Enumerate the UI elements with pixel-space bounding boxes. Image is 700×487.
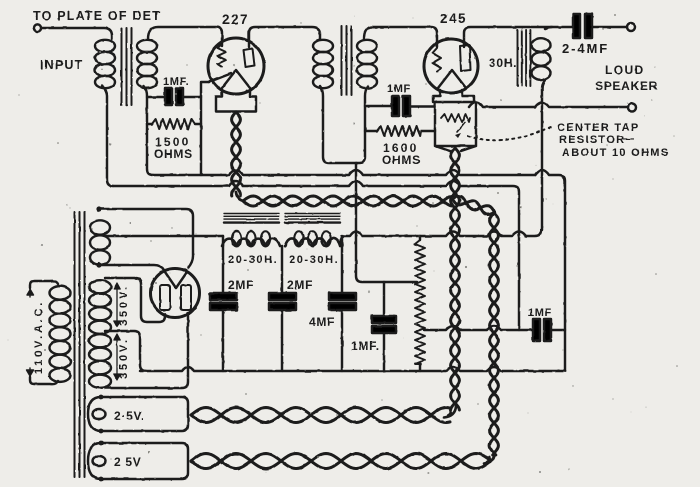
tube V2 filament xyxy=(438,70,466,88)
arrow 350V lower xyxy=(114,334,120,380)
capacitor C5 2MF bars xyxy=(269,293,296,310)
choke L3 30H core xyxy=(518,30,531,86)
node filament winding bottom dot xyxy=(96,262,101,267)
twisted pair 2.5V winding1 horizontal xyxy=(191,408,450,423)
label 2.5V winding 1 xyxy=(114,409,145,423)
label L2 20-30H. xyxy=(289,254,339,266)
wire C8 right lead xyxy=(551,329,565,331)
center-tap resistor box xyxy=(435,102,476,151)
svg-text:4MF: 4MF xyxy=(309,315,335,329)
svg-text:TO PLATE OF DET: TO PLATE OF DET xyxy=(33,9,161,23)
node 2.5V w2 dots xyxy=(99,441,104,482)
node filament winding top dot xyxy=(96,206,101,211)
twisted pair X junction diagonal xyxy=(452,196,495,215)
svg-text:20-30H.: 20-30H. xyxy=(289,254,339,266)
svg-text:1MF.: 1MF. xyxy=(351,339,380,353)
wire 110V bottom lead xyxy=(30,377,58,384)
svg-text:2-4MF: 2-4MF xyxy=(562,41,609,56)
capacitor C6 4MF bars xyxy=(329,293,356,310)
label R2 value 1600 OHMS xyxy=(382,141,421,167)
capacitor C2 1MF bars xyxy=(392,96,410,116)
label V1 227 xyxy=(222,12,249,27)
tube V1 227 envelope xyxy=(208,38,264,94)
wire V1 cathode to ground rail xyxy=(201,82,209,175)
tube V2 base xyxy=(433,90,474,102)
svg-text:RESISTOR: RESISTOR xyxy=(559,134,625,146)
transformer T3 2.5V winding 2 xyxy=(88,443,188,479)
svg-text:350V.: 350V. xyxy=(118,284,130,326)
transformer T1 primary winding xyxy=(95,40,115,88)
tube V1 base xyxy=(216,90,256,112)
wire bias tap line to right xyxy=(424,326,533,330)
capacitor C1 1MF bars xyxy=(165,88,183,105)
twisted pair second vertical run xyxy=(490,213,499,455)
label C2 1MF xyxy=(387,83,411,95)
arrow 350V upper xyxy=(114,283,120,327)
transformer T3 primary winding 110V xyxy=(50,286,71,382)
svg-text:110V.A.C.: 110V.A.C. xyxy=(33,300,45,374)
wire ground return rail xyxy=(140,367,565,371)
wire speaker return from box xyxy=(410,102,627,107)
wire HV center tap to ground line xyxy=(105,331,146,371)
label L3 30H. xyxy=(489,56,517,70)
wire V2 plate to choke and output cap xyxy=(464,27,627,47)
twisted pair 2.5V winding2 horizontal xyxy=(191,454,490,469)
wire T2 return stub to bias tap xyxy=(356,163,417,282)
label 350V upper xyxy=(118,284,130,326)
resistor R1 1500 ohms xyxy=(147,119,201,129)
capacitor C7 1MF stacked bars xyxy=(372,316,396,333)
svg-text:LOUD: LOUD xyxy=(605,63,645,77)
svg-text:350V.: 350V. xyxy=(118,337,130,379)
wire choke L3 bottom to B+ line xyxy=(541,90,543,230)
twisted heater pair V1 vertical xyxy=(232,112,241,196)
arrow 110V top xyxy=(27,289,34,297)
svg-text:227: 227 xyxy=(222,12,249,27)
svg-text:—: — xyxy=(623,133,635,145)
wire filament top lead xyxy=(99,209,193,268)
wire HV top to plate1 xyxy=(105,278,165,322)
transformer T2 primary winding xyxy=(313,40,333,88)
label center tap resistor note xyxy=(557,122,669,159)
svg-text:OHMS: OHMS xyxy=(382,153,421,167)
capacitor C3 2-4MF bars xyxy=(573,14,592,38)
capacitor C8 1MF bars xyxy=(533,319,551,341)
tube V3 plate 2 xyxy=(181,285,191,310)
resistor R2 1600 ohms xyxy=(365,126,435,136)
label INPUT xyxy=(40,58,84,72)
svg-text:2 5V: 2 5V xyxy=(114,455,142,469)
svg-text:1MF: 1MF xyxy=(528,307,552,319)
label C7 1MF. xyxy=(351,339,380,353)
tube V3 filament V xyxy=(165,272,187,288)
wire T1 secondary bottom to ground rail xyxy=(144,86,153,175)
capacitor C4 2MF bars xyxy=(210,293,237,310)
node speaker terminal lower xyxy=(628,104,636,112)
resistor R4 bleeder xyxy=(415,236,425,371)
transformer T3 2.5V winding 1 xyxy=(88,397,188,431)
label L1 20-30H. xyxy=(228,254,278,266)
wire T1 secondary top to V1 grid xyxy=(148,27,222,46)
label R1 value 1500 OHMS xyxy=(154,135,193,161)
transformer T2 secondary winding xyxy=(357,40,377,88)
svg-text:2MF: 2MF xyxy=(287,278,313,292)
twisted pair corner w2 xyxy=(484,452,495,464)
transformer T1 core xyxy=(122,28,132,105)
choke L1 20-30H winding xyxy=(222,231,280,246)
svg-text:245: 245 xyxy=(440,11,467,26)
tube V1 plate xyxy=(244,49,255,68)
node speaker terminal upper xyxy=(627,23,635,31)
tube V2 grid xyxy=(433,48,442,72)
svg-text:20-30H.: 20-30H. xyxy=(228,254,278,266)
twisted pair corner V1 xyxy=(236,192,244,201)
wire bias rail (lower) xyxy=(113,181,519,330)
tube V3 plate 1 xyxy=(160,285,170,310)
svg-text:SPEAKER: SPEAKER xyxy=(595,79,658,93)
label 2.5V winding 2 xyxy=(114,455,142,469)
label TO PLATE OF DET xyxy=(33,9,161,23)
dotted leader to center tap note xyxy=(468,126,553,140)
transformer T1 secondary winding xyxy=(137,40,157,88)
wire T2 secondary top to V2 grid xyxy=(364,27,437,47)
transformer T3 core xyxy=(75,212,85,477)
twisted heater pair V1 horizontal xyxy=(243,196,452,206)
choke L3 30H winding xyxy=(532,27,553,90)
center tap arrow xyxy=(455,122,465,138)
wire 110V top lead xyxy=(30,281,58,288)
wire C6 leads xyxy=(341,236,343,371)
wire input terminal to T1 primary top xyxy=(41,28,112,39)
twisted heater pair V2 vertical xyxy=(451,148,460,410)
wire ground rail (upper) xyxy=(153,170,565,371)
wire T1 primary bottom to bias rail xyxy=(102,86,113,186)
label C3 2-4MF xyxy=(562,41,609,56)
wire plate2 to HV bottom xyxy=(105,313,188,388)
wire C5 leads xyxy=(281,246,283,371)
transformer T3 rectifier filament winding xyxy=(90,220,110,264)
wire C1 left lead xyxy=(147,96,165,98)
wire filament B+ center tap lead xyxy=(105,235,223,237)
svg-text:ABOUT 10 OHMS: ABOUT 10 OHMS xyxy=(562,147,669,159)
choke L2 core xyxy=(285,214,340,223)
label 110V.A.C. xyxy=(33,300,45,374)
svg-text:INPUT: INPUT xyxy=(40,58,84,72)
svg-text:30H.: 30H. xyxy=(489,56,517,70)
tube V1 filament xyxy=(222,70,250,88)
wire C2 left lead xyxy=(365,105,392,107)
svg-text:1MF.: 1MF. xyxy=(163,76,189,88)
wire C7 leads xyxy=(383,282,385,371)
resistor R3 center tap 10 ohms xyxy=(441,114,470,122)
svg-text:OHMS: OHMS xyxy=(154,147,193,161)
label C6 4MF xyxy=(309,315,335,329)
wire V1 plate to T2 primary xyxy=(249,27,320,47)
wire C1 right lead xyxy=(183,96,201,98)
wire filament bottom lead xyxy=(99,265,164,270)
svg-text:2·5V.: 2·5V. xyxy=(114,409,145,423)
tube V3 rectifier envelope xyxy=(151,269,200,318)
wire B+ line left junction xyxy=(222,236,224,246)
label C1 1MF. xyxy=(163,76,189,88)
label C5 2MF xyxy=(287,278,313,292)
tube V1 grid xyxy=(218,44,227,67)
svg-text:2MF: 2MF xyxy=(228,278,254,292)
wire T2 bottom U link xyxy=(320,86,368,163)
wire B+ line to speaker choke xyxy=(340,230,541,246)
tube V2 plate xyxy=(460,45,471,71)
tube V1 cathode lead xyxy=(209,74,231,83)
node 2.5V w1 dots xyxy=(99,395,104,434)
transformer T3 HV winding xyxy=(89,280,111,388)
label V2 245 xyxy=(440,11,467,26)
twisted pair corner w1 xyxy=(444,406,456,418)
transformer T2 core xyxy=(342,26,352,95)
label C4 2MF xyxy=(228,278,254,292)
arrow 110V bottom xyxy=(27,368,34,376)
choke L1 core xyxy=(224,214,279,223)
wire C4 leads xyxy=(222,244,224,371)
tube V2 245 envelope xyxy=(424,39,478,93)
label loud speaker xyxy=(595,63,658,93)
label 350V lower xyxy=(118,337,130,379)
label C8 1MF xyxy=(528,307,552,319)
node input terminal (to plate of det) xyxy=(34,24,41,31)
choke L2 20-30H winding xyxy=(285,231,340,246)
svg-text:1MF: 1MF xyxy=(387,83,411,95)
